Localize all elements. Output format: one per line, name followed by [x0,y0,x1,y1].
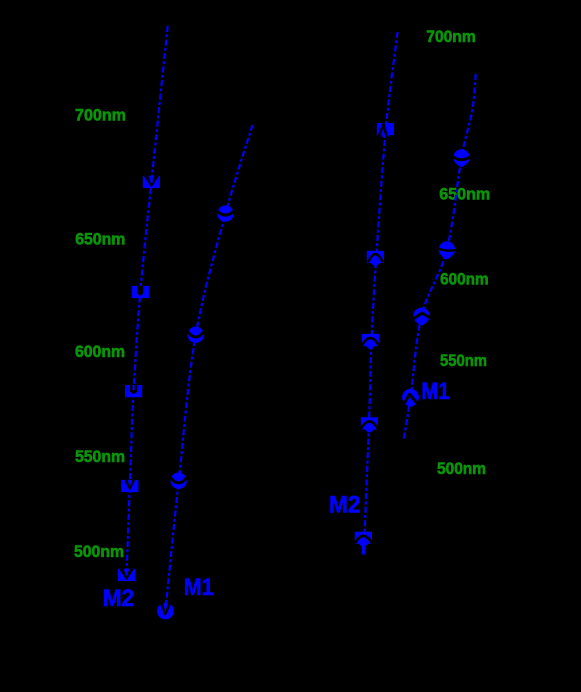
curve M2 right group [364,32,398,546]
svg-text:700nm: 700nm [426,27,475,46]
marker circle up M1-right pt1 [453,149,470,167]
marker circle arrow-end M1-left pt4 [157,603,174,620]
curve M2 left group [127,26,168,575]
marker square up M2-right pt2 [367,251,384,266]
marker square up M2-right pt3 [361,334,380,349]
marker circle up M1-right pt2 [438,241,455,259]
marker square up M2-right pt1 [377,123,394,138]
marker circle down M1-left pt3 [170,473,187,489]
marker circle down M1-left pt2 [187,327,204,343]
marker square down M2-left pt2 [132,286,149,298]
marker square down M2-left pt4 [121,480,138,492]
svg-text:650nm: 650nm [75,229,125,248]
marker circle down M1-left pt1 [217,205,234,221]
svg-text:600nm: 600nm [75,342,125,361]
curve M1 right group [404,74,476,440]
marker square up M2-right pt5 [354,532,373,555]
marker square down M2-left pt5 [118,569,135,581]
marker square down M2-left pt1 [143,176,160,188]
svg-text:500nm: 500nm [437,459,486,478]
svg-text:550nm: 550nm [75,447,125,466]
svg-text:M1: M1 [184,574,214,601]
svg-text:650nm: 650nm [439,185,490,204]
marker circle arrow-end M1-right pt4 [402,389,419,407]
svg-text:700nm: 700nm [75,105,126,124]
svg-text:M2: M2 [329,491,361,518]
svg-text:M1: M1 [421,378,449,405]
marker circle up M1-right pt3 [413,308,430,326]
svg-text:550nm: 550nm [440,351,487,370]
svg-text:500nm: 500nm [74,542,124,561]
curve M1 left group [165,125,252,611]
svg-text:M2: M2 [103,585,135,612]
marker square up M2-right pt4 [360,417,379,432]
svg-text:600nm: 600nm [440,270,489,289]
marker square down M2-left pt3 [125,385,142,397]
